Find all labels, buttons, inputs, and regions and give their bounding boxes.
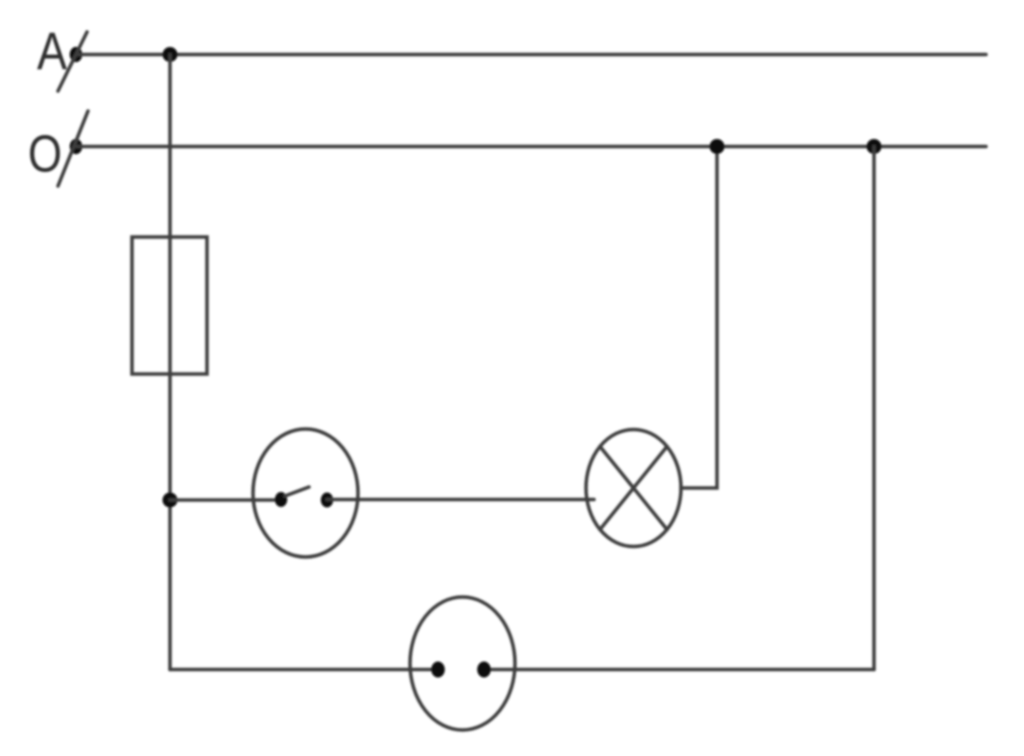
- node: junction at switch branch: [163, 493, 178, 508]
- wire: bottom run right segment from socket: [484, 668, 874, 672]
- wire: phase line A: [76, 53, 986, 57]
- terminal dot on line O: [70, 139, 83, 154]
- switch S1 body: [253, 429, 358, 557]
- node: junction on line A at top of fuse branch: [163, 47, 178, 62]
- svg-text:O: O: [28, 126, 62, 184]
- fuse F1: [132, 237, 207, 374]
- wire: lamp right lead to neutral riser: [681, 147, 717, 489]
- wire: switch to lamp: [327, 498, 594, 502]
- slash mark through line A terminal: [58, 32, 87, 91]
- lamp E1 cross stroke 2: [600, 447, 667, 530]
- socket X1 right contact dot: [477, 662, 491, 678]
- lamp E1 cross stroke 1: [600, 447, 667, 530]
- terminal dot on line A: [70, 47, 83, 62]
- socket X1 left contact dot: [431, 662, 445, 678]
- wire: vertical drop from line A through fuse to bottom run: [168, 55, 172, 670]
- svg-text:A: A: [37, 22, 68, 81]
- node: junction on line O above socket riser: [867, 139, 882, 154]
- wire: right riser from line O down to bottom run: [872, 147, 876, 670]
- socket X1 body: [410, 597, 515, 730]
- lamp E1 body: [586, 430, 681, 547]
- switch S1 lever: [285, 487, 309, 496]
- switch S1 right contact dot: [321, 493, 333, 508]
- slash mark through line O terminal: [58, 111, 88, 186]
- wire: branch from junction to switch left contact: [170, 498, 281, 502]
- wire: neutral line O: [76, 145, 986, 149]
- switch S1 left contact dot: [275, 492, 287, 507]
- node: junction on line O above lamp: [710, 139, 725, 154]
- wire: bottom run left segment to socket: [170, 668, 438, 672]
